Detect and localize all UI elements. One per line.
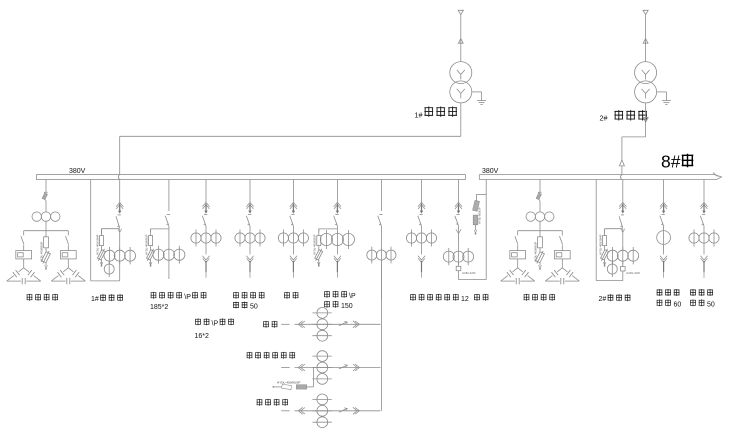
- loop frame wire: [90, 180, 92, 281]
- CT circles: [235, 233, 245, 243]
- feeder: dual outlet 一模双出: [406, 180, 436, 278]
- CT circles: [278, 233, 288, 243]
- capacitor delta bank: [19, 268, 24, 272]
- plug-in contact arrow up: [455, 202, 462, 206]
- capacitor delta bank: [513, 268, 518, 272]
- svg-text:185*2: 185*2: [150, 304, 168, 311]
- bus hop at 2# incoming: [621, 175, 622, 180]
- label 厂区照明 电缆50: [233, 292, 264, 311]
- feeder: crusher station 破碎所: [657, 180, 671, 278]
- switch blade horizontal: [339, 408, 347, 412]
- CT circles: [104, 250, 115, 261]
- slanted fuse element: [97, 248, 107, 262]
- wire: [380, 263, 382, 300]
- direction arrow (open triangle up): [643, 39, 648, 44]
- plug-out contact arrow down: [660, 256, 667, 260]
- svg-text:HYDL-400/60/3P: HYDL-400/60/3P: [534, 241, 538, 262]
- left cable dash: [281, 367, 290, 369]
- meter box: [621, 267, 626, 271]
- feeder wire: [703, 180, 705, 203]
- capacitor leg wire: [561, 231, 563, 236]
- branch to fuse column: [477, 193, 487, 195]
- bottom row 1: spare: [281, 308, 380, 342]
- svg-text:\P: \P: [349, 293, 356, 300]
- arrow terminal: [149, 262, 152, 265]
- transformer winding LV (Y): [450, 81, 472, 103]
- svg-text:60: 60: [674, 301, 682, 308]
- arrow terminal: [475, 225, 477, 231]
- slanted fuse element: [41, 250, 52, 265]
- switch blade: [116, 216, 120, 227]
- svg-text:1#: 1#: [91, 296, 99, 303]
- plug-in contact arrow up: [202, 202, 209, 206]
- busbar left 380V: [37, 175, 466, 180]
- label 无功补偿 (right): [524, 294, 530, 301]
- branch bar: [24, 230, 69, 232]
- wire: [336, 226, 338, 230]
- switch blade horizontal: [339, 322, 347, 326]
- ground connection: [657, 91, 667, 93]
- contactor box: [60, 251, 76, 259]
- loop frame wire: [595, 180, 597, 281]
- ground connection: [472, 91, 482, 93]
- contactor box: [16, 251, 32, 259]
- fuse body: [604, 229, 606, 236]
- wire: [663, 246, 665, 254]
- switch blade: [619, 216, 623, 227]
- label 1# 变压器: [415, 106, 457, 119]
- switch blade: [700, 216, 704, 226]
- svg-text:16*2: 16*2: [195, 333, 210, 340]
- feeder: cooling unit 冷却机组: [144, 180, 185, 280]
- capacitor delta bank: [63, 268, 68, 272]
- CT circles: [406, 233, 416, 243]
- 2# incoming breaker: [596, 180, 640, 281]
- fuse body: [101, 229, 103, 236]
- wire: [23, 259, 25, 268]
- feeder: cooling unit cable 2: [191, 180, 221, 278]
- direction arrow (open triangle up): [458, 39, 463, 44]
- row wire: [295, 323, 381, 325]
- wire: [517, 245, 519, 251]
- wire: [23, 245, 25, 251]
- switch contact tick: [204, 213, 207, 215]
- plug-in contact arrow up: [660, 202, 667, 206]
- label 破碎\P电缆 16*2: [195, 318, 234, 339]
- plug-out contact arrow down: [334, 256, 341, 260]
- feeder wire: [205, 180, 207, 203]
- svg-text:380V: 380V: [69, 168, 86, 175]
- feeder: four pumps 四组泵: [313, 180, 355, 278]
- label 备用: [284, 292, 290, 299]
- fuse switch (slanted): [42, 193, 47, 200]
- chevron left (double): [298, 407, 302, 414]
- svg-text:HYDL-400/10/4P: HYDL-400/10/4P: [95, 234, 99, 255]
- transformer T1 (1#): [450, 10, 486, 104]
- svg-text:2#: 2#: [599, 296, 607, 303]
- chevron left (double): [298, 321, 302, 328]
- CT circles (vertical stack): [317, 394, 328, 405]
- left cable dash: [281, 410, 290, 412]
- wire: [292, 247, 294, 255]
- plug-in contact arrow up: [116, 202, 123, 206]
- contactor box: [510, 251, 526, 259]
- plug-in contact arrow up: [418, 202, 425, 206]
- switch contact tick: [702, 213, 705, 215]
- feeder wire: [421, 180, 423, 203]
- wire: [292, 226, 294, 230]
- label 办公系统用电: [247, 352, 253, 359]
- feeder: spare 备用: [278, 180, 308, 278]
- wire: [621, 166, 623, 175]
- wire T1 to incoming feeder: [120, 103, 461, 175]
- switch contact tick: [621, 214, 624, 216]
- wire to loop bottom: [119, 261, 121, 281]
- branch to fuse: [102, 228, 120, 230]
- branch fuse chain: [312, 368, 314, 387]
- feeder wire: [249, 180, 251, 203]
- feeder: plant lighting 厂区照明: [235, 180, 265, 278]
- switch contact tick: [248, 213, 251, 215]
- switch blade: [202, 216, 206, 226]
- slanted fuse element: [146, 248, 156, 262]
- transformer winding HV (Y): [635, 62, 657, 84]
- feeder wire: [663, 180, 665, 203]
- plug-in contact arrow up: [290, 202, 297, 206]
- switch contact tick: [335, 213, 338, 215]
- switch blade: [418, 216, 422, 226]
- arrow terminal: [45, 265, 48, 268]
- svg-text:2#: 2#: [600, 114, 608, 123]
- leg switch blade: [21, 236, 24, 244]
- fuse element 2: [473, 215, 478, 225]
- svg-text:8#: 8#: [661, 152, 681, 172]
- plug-in contact arrow up: [619, 202, 626, 206]
- contactor circles: [32, 212, 41, 221]
- feeder wire: [539, 180, 541, 193]
- switch blade: [455, 216, 459, 225]
- label 2# 变压器: [600, 110, 647, 122]
- svg-text:HUB1-3236: HUB1-3236: [462, 271, 476, 275]
- wire: [380, 226, 382, 247]
- svg-text:HYDL-400/10/4P: HYDL-400/10/4P: [598, 234, 602, 255]
- switch blade: [290, 216, 294, 226]
- wire: [421, 247, 423, 255]
- CT circle: [657, 231, 671, 245]
- wire: [703, 226, 705, 230]
- branch wire to fuse: [319, 228, 338, 230]
- busbar right 380V: [479, 173, 721, 180]
- feeder wire: [336, 180, 338, 203]
- wire: [168, 264, 170, 279]
- wire T2 to bus: [622, 103, 646, 160]
- label 1#变进线: [91, 294, 123, 303]
- left cable dash: [281, 323, 290, 325]
- wire: [421, 226, 423, 230]
- reactive power compensation group 2: [501, 180, 580, 285]
- arrow terminal: [318, 262, 321, 265]
- label 一模双出电缆12: [410, 294, 469, 303]
- wire: [561, 259, 563, 268]
- main wire below bus: [119, 180, 121, 203]
- plug-in contact arrow up: [700, 202, 707, 206]
- svg-text:380V: 380V: [482, 168, 499, 175]
- slanted fuse element: [535, 250, 546, 265]
- fuse switch (slanted): [536, 193, 541, 200]
- wire to loop bottom: [622, 261, 624, 280]
- label 无功补偿: [27, 294, 33, 301]
- switch contact tick: [419, 213, 422, 215]
- label 联络: [474, 294, 480, 301]
- ground symbol: [477, 100, 486, 102]
- slanted fuse element: [600, 248, 610, 262]
- feeder wire: [380, 180, 382, 212]
- CT circles: [320, 233, 332, 245]
- label 破碎所 电缆60: [657, 289, 682, 308]
- wire: [45, 201, 47, 212]
- leg switch blade: [560, 236, 563, 244]
- transformer winding HV (Y): [450, 62, 472, 84]
- connection arrow (open triangle up): [619, 160, 624, 166]
- plug-out contact arrow down: [246, 256, 253, 260]
- fuse body: [539, 231, 541, 237]
- plug-out contact arrow down: [202, 256, 209, 260]
- plug-in contact arrow up: [246, 202, 253, 206]
- switch contact tick: [662, 213, 665, 215]
- main wire below bus: [622, 180, 624, 203]
- wire: [67, 245, 69, 251]
- switch contact tick: [118, 214, 121, 216]
- CT circles: [689, 233, 699, 243]
- CT circles: [191, 233, 201, 243]
- plug-in contact arrow up: [334, 202, 341, 206]
- switch contact tick: [167, 213, 170, 215]
- wire to right bus: [458, 271, 460, 280]
- slanted fuse element: [314, 248, 324, 262]
- svg-text:\P: \P: [184, 294, 191, 301]
- wire: [249, 226, 251, 230]
- svg-text:\P: \P: [212, 320, 219, 327]
- 1# incoming breaker: [91, 180, 136, 281]
- branch bar: [518, 230, 563, 232]
- meter box: [456, 266, 461, 270]
- switch blade: [334, 216, 338, 226]
- capacitor leg wire: [67, 231, 69, 236]
- wire: [67, 259, 69, 268]
- CT circles: [367, 250, 377, 260]
- contactor box: [554, 251, 570, 259]
- wire: [168, 226, 170, 246]
- svg-text:50: 50: [250, 304, 258, 311]
- junction arrow down: [118, 229, 122, 233]
- leg switch blade: [66, 236, 69, 244]
- capacitor leg wire: [23, 231, 25, 236]
- wire: [336, 249, 338, 254]
- plug-out contact arrow down: [700, 256, 707, 260]
- reactive power compensation group 1: [7, 180, 86, 285]
- row wire: [295, 367, 381, 369]
- wire: [703, 247, 705, 255]
- tie feeder 联络: [443, 180, 486, 280]
- fuse element 1: [473, 200, 480, 211]
- fuse body: [45, 231, 47, 237]
- branch to fuse: [605, 228, 623, 230]
- switch blade: [246, 216, 250, 226]
- arrow terminal: [603, 262, 606, 265]
- wire: [205, 226, 207, 230]
- svg-text:HYDL-400/60/3P: HYDL-400/60/3P: [313, 234, 317, 255]
- wire: [517, 259, 519, 268]
- bus hop at 1# incoming: [118, 175, 119, 180]
- arrow terminal: [539, 265, 542, 268]
- wire: [663, 226, 665, 229]
- transformer T2 (2#): [635, 10, 671, 104]
- fuse body: [150, 229, 152, 236]
- chevron right (double): [353, 407, 357, 414]
- feeder wire: [168, 180, 170, 212]
- incoming line arrow (open triangle down): [458, 10, 463, 14]
- wire: [539, 221, 541, 230]
- plug-out contact arrow down: [418, 256, 425, 260]
- label 厂区照明: [257, 399, 263, 406]
- switch contact tick: [291, 213, 294, 215]
- switch blade: [165, 216, 169, 226]
- wire: [645, 15, 647, 62]
- label 冷却机组\P电缆 185*2: [150, 292, 206, 311]
- label 水泵房 电缆50: [690, 289, 715, 308]
- incoming line arrow (open triangle down): [643, 10, 648, 14]
- feeder wire: [292, 180, 294, 203]
- chevron left (double): [298, 364, 302, 371]
- CT circles: [153, 249, 164, 260]
- svg-text:HYDL-400/60/3P: HYDL-400/60/3P: [144, 234, 148, 255]
- extra CT circle: [607, 264, 617, 274]
- feeder: pump house 水泵房: [689, 180, 719, 278]
- CT circles (vertical stack): [317, 351, 328, 362]
- switch contact tick: [456, 213, 459, 215]
- switch blade horizontal: [339, 365, 347, 369]
- svg-text:HYDL-400/60/3P: HYDL-400/60/3P: [277, 380, 300, 384]
- svg-text:HUB1-3236: HUB1-3236: [626, 271, 640, 275]
- arrow on T2 lead: [643, 117, 648, 122]
- arrow terminal: [100, 262, 103, 265]
- svg-text:150: 150: [341, 303, 353, 310]
- leg switch blade: [515, 236, 518, 244]
- extra CT circle: [104, 264, 114, 274]
- bottom row 2: office power: [272, 351, 380, 390]
- label 四组泵\P 电缆150: [324, 291, 356, 310]
- busbar continuation arrow: [715, 175, 722, 180]
- capacitor delta bank: [557, 268, 562, 272]
- switch blade: [378, 216, 382, 226]
- chevron right (double): [353, 364, 357, 371]
- plug-out contact arrow down: [290, 256, 297, 260]
- label 2#变进线: [599, 294, 631, 303]
- wire: [205, 247, 207, 255]
- svg-text:50: 50: [707, 301, 715, 308]
- row wire: [295, 410, 381, 412]
- transformer winding LV (Y): [635, 81, 657, 103]
- contactor circles: [526, 212, 535, 221]
- wire: [561, 245, 563, 251]
- title 8#屏: [661, 152, 693, 172]
- svg-text:12: 12: [461, 296, 469, 303]
- wire: [460, 15, 462, 62]
- wire: [622, 229, 624, 251]
- wire: [539, 201, 541, 212]
- ground symbol: [662, 100, 671, 102]
- CT circles (vertical stack): [317, 308, 328, 319]
- junction arrow down: [621, 229, 625, 233]
- CT circles: [607, 250, 618, 261]
- fuse body: [318, 229, 320, 236]
- bottom row 3: plant lighting: [281, 394, 380, 428]
- switch blade: [660, 216, 664, 226]
- branch wire to fuse: [151, 228, 169, 230]
- wire: [119, 229, 121, 251]
- chevron right (double): [353, 321, 357, 328]
- capacitor leg wire: [517, 231, 519, 236]
- label 备用: [263, 321, 269, 328]
- feeder wire: [45, 180, 47, 193]
- wire: [249, 247, 251, 255]
- feeder: sub-distribution riser: [367, 180, 396, 411]
- svg-text:1#: 1#: [415, 111, 423, 120]
- wire: [45, 221, 47, 230]
- svg-text:HYDL-400/60/3P: HYDL-400/60/3P: [40, 241, 44, 262]
- switch contact tick: [379, 213, 382, 215]
